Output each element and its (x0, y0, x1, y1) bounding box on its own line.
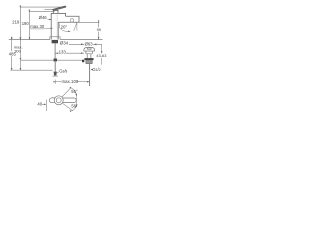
angle 20 leader curve (59, 23, 70, 31)
G 3/8 label with leader (56, 69, 67, 74)
svg-text:99: 99 (97, 27, 101, 32)
svg-text:56°: 56° (71, 89, 78, 94)
aerator circle on spout (70, 19, 73, 22)
svg-text:max.30: max.30 (30, 24, 45, 29)
svg-text:219: 219 (12, 20, 20, 25)
text max300 (14, 45, 23, 54)
drain nut body (86, 60, 92, 64)
spout tip extension line (76, 94, 78, 107)
svg-text:max.100: max.100 (62, 79, 79, 84)
spout (58, 16, 79, 22)
text 190 (22, 21, 30, 26)
text 43-63 (96, 53, 106, 58)
text 485 (8, 51, 16, 56)
dimension 190 line (28, 12, 30, 40)
angle 20 vertical ray (76, 22, 78, 30)
G 1/2 label with leader arrow (91, 67, 101, 72)
top view inner circle (56, 98, 61, 103)
dimension 485 line below deck (19, 40, 21, 60)
top view lever handle (49, 98, 55, 103)
drain flange dome (84, 48, 95, 59)
base escutcheon (50, 37, 60, 40)
swivel line upper (62, 87, 71, 97)
deck line right (60, 39, 102, 41)
swivel arc lower (72, 105, 77, 111)
body inner shading line (56, 14, 58, 39)
extra arrow above deck L1 (11, 37, 12, 40)
top view body circle (54, 96, 63, 105)
hose end cone (54, 72, 57, 76)
swivel arc upper (72, 88, 77, 96)
dimension 99 line (98, 23, 100, 40)
dimension 133 (55, 49, 84, 54)
svg-text:190: 190 (22, 21, 30, 26)
svg-text:56°: 56° (71, 104, 78, 109)
Ø34 label (60, 41, 69, 46)
extension line spout outlet (79, 21, 99, 23)
text 20deg (60, 24, 67, 29)
swivel line lower (62, 103, 72, 111)
lever underside reference line (45, 8, 56, 10)
fitting level line (21, 59, 85, 61)
deck line left (9, 39, 50, 41)
svg-text:Ø63: Ø63 (85, 42, 94, 47)
drain pipe lower (89, 64, 91, 86)
svg-text:133: 133 (59, 50, 67, 55)
dimension Ø63 (69, 43, 102, 45)
svg-text:G3/8: G3/8 (59, 69, 67, 74)
svg-text:Ø34: Ø34 (60, 41, 69, 46)
svg-text:G1/2: G1/2 (92, 67, 100, 72)
cartridge dome (53, 10, 58, 13)
hose fitting dark (54, 59, 57, 62)
faucet body column (51, 10, 65, 39)
text 219 (12, 20, 20, 25)
flexible hose (54, 61, 56, 72)
hose end reference line (11, 69, 53, 71)
dimension max300 line (11, 40, 13, 70)
text max30 with leader (30, 24, 52, 29)
dimension 43-63 vertical (101, 44, 103, 53)
svg-text:300: 300 (14, 48, 21, 53)
drain pipe upper (87, 54, 91, 58)
angle 20 tilted ray (74, 22, 77, 31)
hose end tick (52, 75, 58, 77)
rod side fitting (82, 60, 84, 62)
dimension max100 (55, 79, 89, 84)
text 99 (97, 27, 101, 32)
drain neck (86, 51, 92, 54)
extension line faucet top (20, 6, 64, 8)
Ø46 label with leader (39, 15, 52, 20)
svg-text:40: 40 (37, 101, 42, 106)
handle lever (53, 6, 66, 11)
dimension 219 line (19, 8, 21, 40)
dimension 40 (37, 100, 46, 112)
mounting nut dark (52, 40, 58, 43)
svg-text:20°: 20° (61, 24, 68, 29)
drain washer dark bar (84, 58, 93, 60)
shank below nut (54, 43, 56, 58)
top view spout (63, 98, 76, 103)
svg-text:43-63: 43-63 (96, 53, 106, 58)
svg-text:Ø46: Ø46 (39, 15, 48, 20)
extension line 190 level (29, 11, 55, 13)
